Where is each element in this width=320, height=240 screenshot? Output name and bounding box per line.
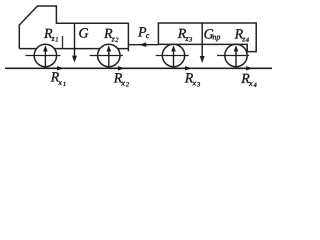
svg-text:1: 1 — [63, 81, 66, 88]
svg-text:3: 3 — [188, 37, 193, 44]
trailer body outline — [158, 23, 256, 52]
wheel 3 — [156, 44, 189, 67]
truck bed front wall line — [62, 36, 64, 49]
svg-text:x: x — [192, 78, 197, 87]
truck body outline — [19, 6, 128, 51]
svg-text:G: G — [79, 27, 89, 42]
svg-text:1: 1 — [55, 37, 58, 44]
svg-text:x: x — [57, 78, 62, 87]
svg-text:3: 3 — [196, 82, 201, 89]
reaction arrow R_x2 — [109, 66, 125, 70]
svg-text:2: 2 — [115, 37, 119, 44]
ground line — [5, 67, 272, 69]
svg-text:2: 2 — [126, 82, 130, 89]
wheel 4 — [217, 44, 249, 67]
svg-text:c: c — [146, 31, 150, 40]
trailer weight arrow G_pr — [200, 23, 205, 63]
svg-text:4: 4 — [246, 37, 250, 44]
reaction arrow R_x4 — [236, 66, 253, 70]
wheel 1 — [26, 44, 61, 67]
reaction arrow R_x1 — [45, 66, 64, 70]
drawbar arrow P_c — [139, 42, 146, 47]
wheel 2 — [90, 44, 123, 67]
svg-text:пр: пр — [212, 32, 220, 41]
svg-text:4: 4 — [254, 82, 258, 89]
reaction arrow R_x3 — [174, 66, 193, 70]
svg-text:x: x — [120, 78, 125, 87]
drawbar wire — [128, 44, 158, 46]
weight arrow G — [72, 23, 77, 62]
svg-text:x: x — [248, 79, 253, 88]
